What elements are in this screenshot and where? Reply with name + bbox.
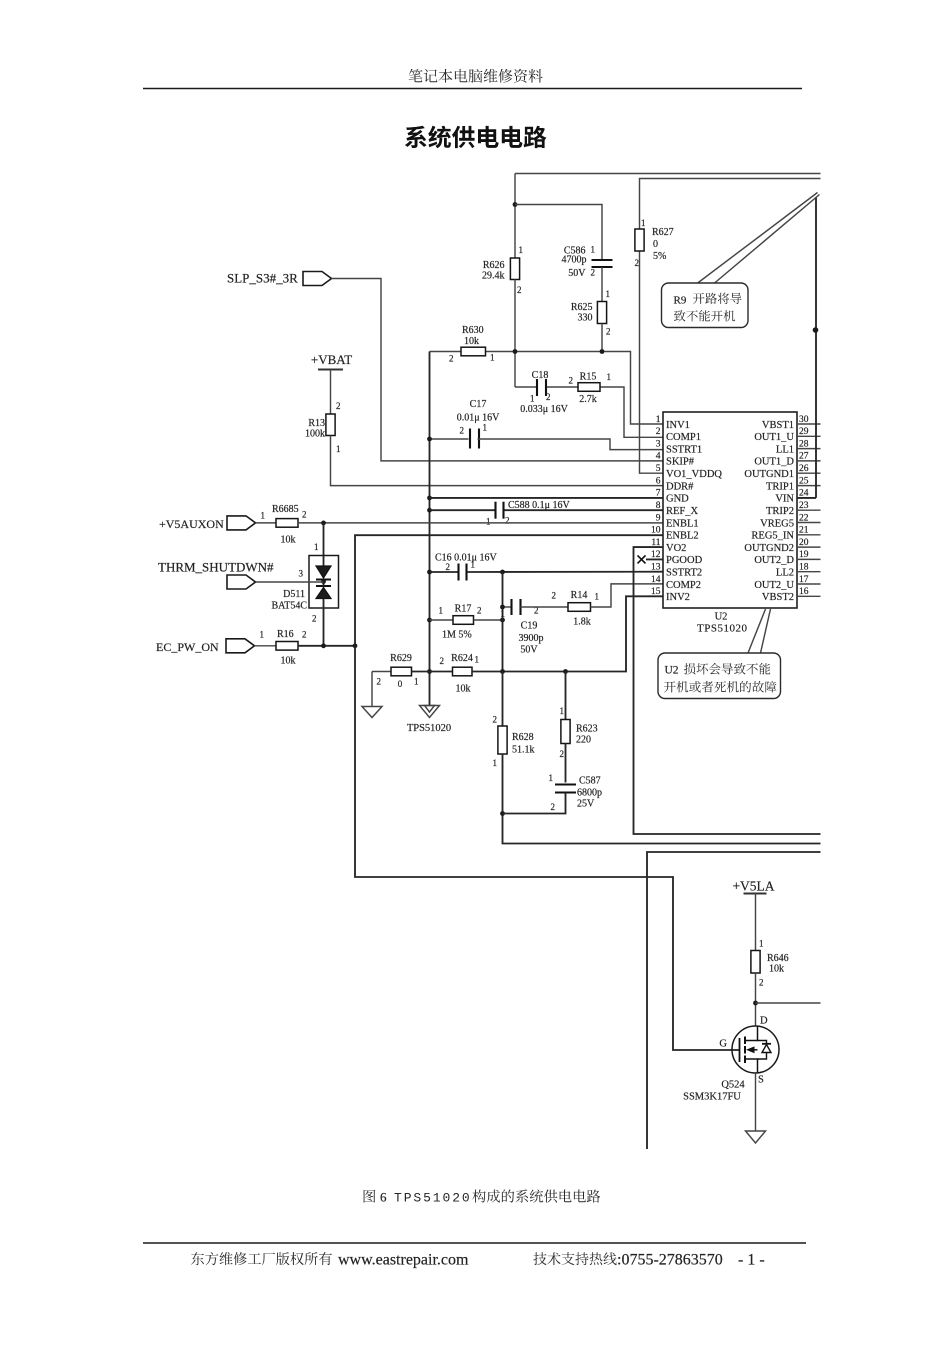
wire R16 to gate net	[298, 643, 357, 648]
resistor R623	[560, 672, 598, 760]
capacitor C16	[430, 553, 664, 581]
svg-text:0.01μ 16V: 0.01μ 16V	[457, 413, 500, 424]
svg-text:1: 1	[656, 415, 661, 425]
svg-text:OUTGND1: OUTGND1	[744, 469, 794, 480]
svg-text:1: 1	[501, 609, 506, 619]
svg-text:13: 13	[651, 563, 661, 573]
svg-text:INV2: INV2	[666, 592, 690, 603]
svg-text:INV1: INV1	[666, 420, 690, 431]
svg-text:www.eastrepair.com: www.eastrepair.com	[338, 1252, 469, 1269]
pin 29 OUT1_U	[754, 427, 820, 443]
svg-text:5: 5	[656, 464, 661, 474]
pin 13 SSTRT2	[651, 563, 702, 579]
pin 9 ENBL1	[656, 513, 699, 529]
svg-text:D511: D511	[283, 589, 305, 600]
power +V5LA	[732, 879, 774, 894]
svg-text:1: 1	[314, 542, 319, 552]
svg-text:2: 2	[302, 630, 307, 640]
svg-text:1: 1	[519, 245, 524, 255]
svg-text:5%: 5%	[653, 251, 666, 262]
svg-text:1: 1	[336, 444, 341, 454]
svg-text:R16: R16	[277, 629, 294, 640]
wire VO2 pin11 to right rail	[634, 547, 821, 834]
title 系统供电电路	[405, 126, 547, 149]
resistor R15	[569, 372, 612, 406]
pin 25 TRIP1	[766, 476, 821, 492]
svg-text:R6685: R6685	[272, 504, 299, 515]
pin 12 PGOOD	[651, 550, 703, 566]
svg-text:1: 1	[486, 517, 491, 527]
svg-text:ENBL1: ENBL1	[666, 518, 699, 529]
pin 10 ENBL2	[651, 526, 699, 542]
svg-text:1: 1	[260, 630, 265, 640]
svg-text:THRM_SHUTDWN#: THRM_SHUTDWN#	[158, 560, 274, 575]
pin 16 VBST2	[762, 587, 821, 603]
pin 18 LL2	[776, 563, 821, 579]
svg-text:1: 1	[560, 706, 565, 716]
node EC_PW_ON	[156, 639, 255, 654]
svg-text:TPS51020: TPS51020	[407, 723, 451, 734]
svg-text:VBST1: VBST1	[762, 420, 794, 431]
capacitor C586	[562, 245, 613, 280]
svg-text:10k: 10k	[281, 535, 296, 546]
pin 15 INV2	[651, 587, 690, 603]
svg-text:+VBAT: +VBAT	[311, 352, 352, 367]
svg-text:2: 2	[635, 258, 640, 268]
svg-text:SSTRT1: SSTRT1	[666, 444, 702, 455]
wire top rail	[515, 173, 821, 175]
svg-text:2: 2	[312, 614, 317, 624]
pin 5 VO1_VDDQ	[656, 464, 723, 480]
caption 图6 TPS51020 ...	[364, 1189, 601, 1205]
svg-text:ENBL2: ENBL2	[666, 531, 699, 542]
svg-text:10: 10	[651, 526, 661, 536]
svg-text:OUT1_D: OUT1_D	[754, 457, 794, 468]
wire EC net down to Q524 gate	[355, 646, 740, 1050]
svg-text:SSM3K17FU: SSM3K17FU	[683, 1092, 741, 1103]
resistor R17	[430, 604, 505, 641]
pin 8 REF_X	[656, 501, 699, 517]
svg-text:3: 3	[656, 439, 661, 449]
svg-text:50V: 50V	[520, 645, 538, 656]
svg-text:6: 6	[380, 1190, 387, 1205]
label U2 TPS51020	[697, 612, 747, 635]
pin 19 OUT2_D	[754, 550, 820, 566]
capacitor C18	[530, 370, 551, 404]
wire EC net up to ENBL2 pin10	[355, 535, 663, 646]
ground Q524 source	[746, 1131, 766, 1143]
wire comp node vertical	[502, 572, 504, 672]
svg-text::0755-27863570: :0755-27863570	[617, 1252, 723, 1269]
ground under R629	[362, 672, 382, 718]
svg-text:U2: U2	[715, 612, 728, 623]
svg-text:2: 2	[449, 354, 454, 364]
resistor R646	[751, 894, 789, 988]
svg-text:DDR#: DDR#	[666, 481, 694, 492]
svg-text:VO1_VDDQ: VO1_VDDQ	[666, 469, 722, 480]
wire C586 to R625	[601, 267, 603, 302]
resistor R6685	[256, 504, 307, 546]
wire R13 to DDR# pin6	[331, 436, 664, 486]
svg-text:51.1k: 51.1k	[512, 745, 535, 756]
svg-text:R623: R623	[576, 724, 598, 735]
svg-text:LL2: LL2	[776, 568, 794, 579]
wire to C586	[515, 205, 602, 260]
diode D511 BAT54C	[271, 556, 338, 612]
svg-text:100k: 100k	[305, 429, 325, 440]
label 0.033u 16V	[520, 404, 568, 415]
svg-text:R15: R15	[580, 372, 597, 383]
svg-text:7: 7	[656, 489, 661, 499]
svg-text:TRIP1: TRIP1	[766, 481, 794, 492]
svg-text:4700p: 4700p	[562, 255, 587, 266]
svg-text:2: 2	[302, 510, 307, 520]
svg-text:C587: C587	[579, 776, 601, 787]
svg-text:C18: C18	[532, 370, 549, 381]
svg-text:3: 3	[299, 569, 304, 579]
svg-text:2: 2	[759, 978, 764, 988]
svg-text:0: 0	[398, 679, 403, 689]
node +V5AUXON	[159, 516, 256, 531]
svg-text:OUT1_U: OUT1_U	[754, 432, 794, 443]
svg-text:15: 15	[651, 587, 661, 597]
pin 21 REG5_IN	[751, 526, 820, 542]
svg-text:R646: R646	[767, 953, 789, 964]
header text 笔记本电脑维修资料	[409, 69, 543, 83]
svg-text:0.033μ 16V: 0.033μ 16V	[520, 404, 568, 415]
header rule	[143, 88, 802, 90]
svg-text:+V5LA: +V5LA	[732, 879, 774, 894]
svg-text:PGOOD: PGOOD	[666, 555, 703, 566]
svg-text:1: 1	[607, 372, 612, 382]
wire R625 to feedback node	[601, 324, 603, 352]
wire drain node to right	[756, 1002, 821, 1004]
pin 24 VIN	[775, 489, 816, 505]
svg-text:TPS51020: TPS51020	[394, 1191, 472, 1206]
svg-text:R625: R625	[571, 302, 593, 313]
pin 14 COMP2	[651, 575, 701, 591]
svg-text:2: 2	[446, 562, 451, 572]
svg-text:29.4k: 29.4k	[482, 271, 505, 282]
svg-text:R630: R630	[462, 325, 484, 336]
svg-text:9: 9	[656, 513, 661, 523]
pin12 PGOOD no-connect	[638, 555, 664, 563]
svg-text:2: 2	[493, 715, 498, 725]
wire R14 to COMP2 pin14	[591, 584, 664, 607]
svg-text:R626: R626	[483, 260, 505, 271]
svg-text:2: 2	[551, 802, 556, 812]
svg-text:SKIP#: SKIP#	[666, 457, 695, 468]
svg-text:1: 1	[493, 758, 498, 768]
svg-text:R9: R9	[674, 295, 687, 307]
wire R628 down to bottom rail	[500, 754, 820, 844]
resistor R629	[372, 653, 419, 689]
svg-text:1: 1	[759, 939, 764, 949]
resistor R624	[412, 653, 480, 695]
svg-text:1.8k: 1.8k	[573, 617, 591, 628]
svg-text:GND: GND	[666, 494, 689, 505]
svg-text:U2: U2	[665, 665, 679, 677]
svg-text:2.7k: 2.7k	[579, 394, 597, 405]
resistor R627	[635, 218, 674, 268]
resistor R13	[305, 414, 341, 454]
svg-text:2: 2	[440, 656, 445, 666]
svg-text:2: 2	[546, 392, 551, 402]
svg-text:R13: R13	[308, 418, 325, 429]
pin 26 OUTGND1	[744, 464, 820, 480]
svg-text:1: 1	[414, 677, 419, 687]
svg-text:14: 14	[651, 575, 661, 585]
pin 17 OUT2_U	[754, 575, 820, 591]
wire R630 row to INV1 pin1	[430, 349, 664, 424]
svg-text:4: 4	[656, 452, 661, 462]
svg-text:220: 220	[576, 735, 591, 746]
wire source to ground	[755, 1073, 757, 1131]
wire C17 row to SSTRT1 pin3	[430, 439, 664, 450]
svg-text:VREG5: VREG5	[760, 518, 794, 529]
callout R9 annotation	[662, 193, 820, 328]
svg-text:1: 1	[549, 773, 554, 783]
svg-text:C16 0.01μ 16V: C16 0.01μ 16V	[435, 553, 498, 564]
wire to ENBL1 pin9	[298, 521, 663, 526]
svg-text:C19: C19	[521, 621, 538, 632]
wire +VBAT to R13	[331, 370, 341, 415]
svg-text:R17: R17	[455, 604, 472, 615]
svg-text:1: 1	[641, 218, 646, 228]
wire VIN pin24 riser	[813, 197, 819, 498]
pin 7 GND	[656, 489, 689, 505]
pin 27 OUT1_D	[754, 452, 820, 468]
svg-text:2: 2	[460, 426, 465, 436]
svg-text:25V: 25V	[577, 799, 595, 810]
svg-text:LL1: LL1	[776, 444, 794, 455]
svg-text:S: S	[758, 1075, 764, 1086]
svg-text:1: 1	[471, 560, 476, 570]
svg-text:2: 2	[569, 376, 574, 386]
svg-text:R628: R628	[512, 732, 534, 743]
svg-text:1: 1	[530, 394, 535, 404]
svg-text:2: 2	[656, 427, 661, 437]
footer rule	[143, 1242, 806, 1244]
svg-text:2: 2	[377, 677, 382, 687]
svg-text:1: 1	[439, 606, 444, 616]
pin 6 DDR#	[656, 476, 694, 492]
svg-text:10k: 10k	[769, 964, 784, 975]
capacitor C588	[430, 500, 664, 527]
svg-text:BAT54C: BAT54C	[271, 601, 307, 612]
svg-text:2: 2	[552, 591, 557, 601]
pin 3 SSTRT1	[656, 439, 702, 455]
op-amp U2 TPS51020 IC box	[663, 412, 797, 608]
svg-text:2: 2	[591, 268, 596, 278]
svg-text:SSTRT2: SSTRT2	[666, 568, 702, 579]
svg-text:1M 5%: 1M 5%	[442, 630, 472, 641]
svg-text:Q524: Q524	[721, 1080, 745, 1091]
svg-text:OUTGND2: OUTGND2	[744, 543, 794, 554]
svg-text:C17: C17	[470, 399, 487, 410]
svg-text:2: 2	[477, 606, 482, 616]
pin 22 VREG5	[760, 513, 820, 529]
wire R624 row to INV2 pin15	[472, 596, 663, 674]
svg-text:R624: R624	[451, 653, 473, 664]
wire R627 to pin5 VO1_VDDQ	[640, 251, 664, 473]
pin 4 SKIP#	[656, 452, 695, 468]
svg-text:2: 2	[606, 327, 611, 337]
svg-text:COMP2: COMP2	[666, 580, 701, 591]
svg-text:1: 1	[483, 423, 488, 433]
svg-text:R627: R627	[652, 227, 674, 238]
svg-text:TRIP2: TRIP2	[766, 506, 794, 517]
capacitor C587	[549, 744, 603, 813]
wire second rail to R627	[640, 179, 821, 230]
wire D511 pin2 down	[312, 608, 324, 646]
svg-text:2: 2	[517, 285, 522, 295]
ground signal gnd double triangle	[407, 706, 451, 735]
svg-text:VO2: VO2	[666, 543, 686, 554]
svg-text:REF_X: REF_X	[666, 506, 699, 517]
wire bus to GND pin7	[430, 497, 664, 499]
svg-text:0: 0	[653, 239, 658, 250]
svg-text:OUT2_U: OUT2_U	[754, 580, 794, 591]
resistor R628	[493, 672, 535, 769]
svg-text:REG5_IN: REG5_IN	[751, 531, 794, 542]
svg-text:G: G	[719, 1039, 727, 1050]
capacitor C17	[457, 399, 500, 449]
wire left rail down from top	[513, 174, 518, 259]
pin 30 VBST1	[762, 415, 821, 431]
svg-text:R14: R14	[571, 590, 588, 601]
resistor R626	[482, 245, 523, 295]
wire V5AUX node to D511	[314, 523, 324, 556]
resistor R14	[521, 590, 600, 628]
footer text	[191, 1252, 765, 1269]
wire C18 R15 row to COMP1 pin2	[515, 387, 663, 437]
svg-text:EC_PW_ON: EC_PW_ON	[156, 640, 219, 654]
svg-text:10k: 10k	[456, 684, 471, 695]
pin 11 VO2	[651, 538, 686, 554]
svg-text:1: 1	[475, 655, 480, 665]
svg-text:C588 0.1μ 16V: C588 0.1μ 16V	[508, 500, 571, 511]
pin 2 COMP1	[656, 427, 701, 443]
pin 1 INV1	[656, 415, 690, 431]
wire clipped rail y852	[647, 852, 821, 1149]
svg-text:1: 1	[591, 245, 596, 255]
svg-text:D: D	[760, 1016, 768, 1027]
svg-text:VIN: VIN	[775, 494, 794, 505]
svg-text:10k: 10k	[464, 336, 479, 347]
wire C587 to node	[503, 793, 566, 814]
svg-text:OUT2_D: OUT2_D	[754, 555, 794, 566]
wire R626 down	[514, 280, 516, 388]
svg-text:6800p: 6800p	[577, 788, 602, 799]
svg-text:2: 2	[336, 401, 341, 411]
svg-text:+V5AUXON: +V5AUXON	[159, 517, 224, 531]
capacitor C19	[500, 599, 543, 656]
svg-text:6: 6	[656, 476, 661, 486]
svg-text:2: 2	[560, 749, 565, 759]
resistor R625	[571, 289, 611, 337]
svg-text:1: 1	[606, 289, 611, 299]
svg-text:SLP_S3#_3R: SLP_S3#_3R	[227, 271, 298, 286]
wire R646 to Q524 drain	[753, 973, 758, 1026]
svg-text:- 1 -: - 1 -	[738, 1252, 765, 1269]
svg-text:3900p: 3900p	[519, 633, 544, 644]
svg-text:8: 8	[656, 501, 661, 511]
svg-text:TPS51020: TPS51020	[697, 623, 747, 635]
svg-text:2: 2	[505, 516, 510, 526]
node SLP_S3#_3R	[227, 271, 332, 286]
wire SLP_S3#_3R to SKIP# pin4	[332, 279, 664, 461]
transistor Q524	[683, 1016, 779, 1103]
svg-text:R629: R629	[390, 653, 412, 664]
svg-text:330: 330	[578, 313, 593, 324]
pin 20 OUTGND2	[744, 538, 820, 554]
pin 28 LL1	[776, 439, 821, 455]
wire THRM to D511 pin3	[256, 569, 324, 583]
svg-text:1: 1	[261, 511, 266, 521]
resistor R16	[255, 629, 307, 667]
pin 23 TRIP2	[766, 501, 821, 517]
power +VBAT	[311, 352, 352, 370]
callout U2 annotation	[658, 609, 781, 699]
svg-text:1: 1	[490, 353, 495, 363]
svg-text:50V: 50V	[568, 268, 586, 279]
resistor R630	[449, 325, 495, 364]
svg-text:COMP1: COMP1	[666, 432, 701, 443]
svg-text:1: 1	[595, 592, 600, 602]
svg-text:VBST2: VBST2	[762, 592, 794, 603]
wire main ground bus	[427, 352, 432, 706]
node THRM_SHUTDWN#	[158, 560, 274, 590]
svg-text:10k: 10k	[281, 656, 296, 667]
